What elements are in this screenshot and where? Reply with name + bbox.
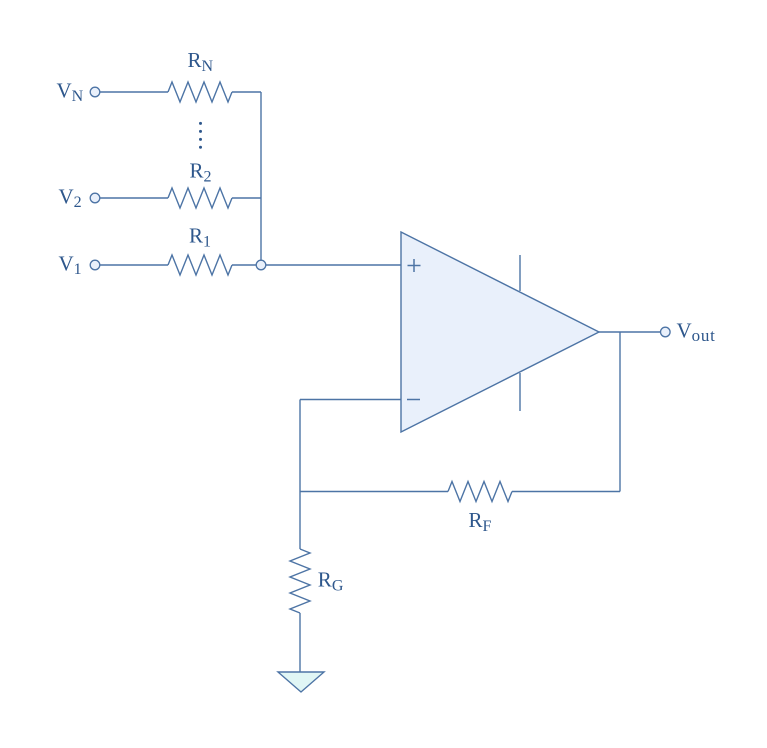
op-amp power pin top	[519, 255, 521, 291]
terminal VN	[90, 87, 100, 97]
wire	[232, 197, 261, 199]
wire	[299, 400, 301, 492]
terminal V1	[90, 260, 100, 270]
svg-text:RN: RN	[188, 48, 214, 75]
wire inverting input	[300, 399, 401, 401]
wire to ground	[299, 613, 301, 672]
svg-text:Vout: Vout	[677, 318, 716, 345]
op-amp U1	[401, 232, 599, 432]
svg-text:VN: VN	[57, 79, 84, 106]
resistor RG	[290, 549, 310, 613]
svg-text:R2: R2	[190, 159, 212, 186]
wire to RG	[299, 492, 301, 550]
wire summing bus	[260, 92, 262, 260]
wire output branch down	[619, 332, 621, 492]
wire	[100, 197, 168, 199]
resistor R2	[168, 188, 232, 208]
op-amp - input marker	[407, 399, 420, 401]
terminal V2	[90, 193, 100, 203]
wire output	[599, 331, 661, 333]
svg-text:V2: V2	[59, 185, 82, 212]
svg-text:RF: RF	[469, 508, 492, 535]
wire feedback right	[512, 491, 620, 493]
wire	[100, 264, 168, 266]
wire feedback left	[300, 491, 448, 493]
terminal Vout	[661, 327, 671, 337]
wire	[232, 91, 261, 93]
svg-text:RG: RG	[318, 568, 344, 595]
svg-text:V1: V1	[59, 252, 82, 279]
resistor RF	[448, 482, 512, 502]
op-amp power pin bottom	[519, 373, 521, 411]
wire	[266, 264, 401, 266]
resistor RN	[168, 82, 232, 102]
resistor R1	[168, 255, 232, 275]
wire	[232, 264, 256, 266]
ground	[278, 672, 324, 692]
ellipsis dots	[199, 122, 202, 149]
svg-text:R1: R1	[189, 224, 211, 251]
wire	[100, 91, 168, 93]
op-amp + input marker	[408, 259, 421, 272]
node junction	[256, 260, 266, 270]
